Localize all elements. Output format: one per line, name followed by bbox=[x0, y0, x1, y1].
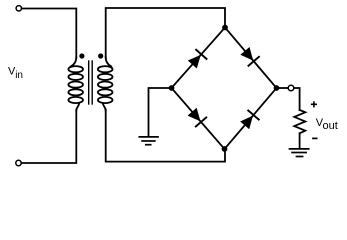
ground (bridge left) bbox=[139, 137, 158, 145]
wire hook into primary top bbox=[71, 57, 77, 66]
wire: bridge edge left-top bbox=[172, 28, 226, 89]
wire: resistor bottom to ground bbox=[299, 133, 301, 148]
resistor R load bbox=[294, 110, 305, 133]
label + bbox=[311, 101, 317, 107]
diode D1 (left node to top node) bbox=[187, 50, 206, 69]
wire hook out of secondary bottom bbox=[103, 103, 106, 110]
ground (output) bbox=[290, 149, 309, 157]
svg-text:out: out bbox=[323, 120, 338, 132]
wire: bridge edge left-bottom bbox=[172, 88, 225, 149]
wire: right node to output terminal bbox=[277, 87, 289, 89]
node bottom bbox=[222, 146, 228, 152]
transformer T1 primary winding bbox=[68, 66, 83, 103]
wire: left node to ground bbox=[149, 88, 172, 136]
wire hook into secondary top bbox=[106, 57, 112, 66]
node right bbox=[274, 85, 280, 91]
wire: bottom input to primary bottom bbox=[21, 110, 76, 164]
input terminal bottom-left (open circle) bbox=[16, 160, 21, 165]
diode D2 (top node to right node) bbox=[240, 46, 259, 65]
transformer core bbox=[89, 61, 93, 104]
wire: bridge edge bottom-right bbox=[225, 88, 277, 149]
node top bbox=[222, 25, 228, 31]
diode D4 (bottom node to right node) bbox=[239, 111, 258, 130]
output terminal (open circle) bbox=[288, 85, 294, 91]
wire: top input to primary top bbox=[22, 9, 77, 58]
svg-text:in: in bbox=[15, 70, 23, 81]
node left bbox=[169, 85, 175, 91]
polarity dot secondary bbox=[98, 53, 103, 58]
wire: bridge edge top-right bbox=[225, 28, 277, 89]
label - bbox=[312, 137, 317, 139]
wire: secondary top to bridge top node bbox=[106, 8, 225, 58]
wire: output terminal to resistor top bbox=[294, 88, 300, 110]
transformer T1 secondary winding bbox=[98, 66, 113, 103]
wire: secondary bottom rail to bridge bottom node bbox=[106, 110, 225, 162]
input terminal top-left (open circle) bbox=[16, 6, 21, 11]
diode D3 (left node to bottom node) bbox=[187, 107, 206, 126]
polarity dot primary bbox=[79, 53, 84, 58]
wire hook out of primary bottom bbox=[76, 103, 79, 110]
